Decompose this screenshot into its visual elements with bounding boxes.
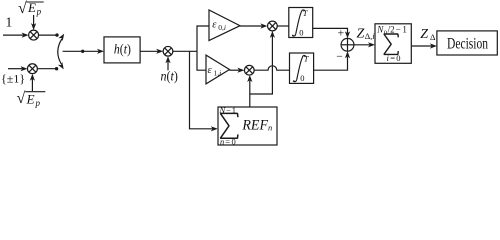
wire input 1 into M1 [3,34,24,36]
svg-text:n(t): n(t) [161,70,179,85]
svg-text:√: √ [17,90,26,107]
vinculum top [26,1,43,3]
wire A0 to multiplier M4 [240,25,262,27]
block H1 h(t) [104,37,140,63]
wire M1 to switch contact top [39,34,57,36]
label integral 0 to T top [292,10,305,37]
multiplier M1 [29,30,39,40]
decision block D1 [437,31,497,55]
label integral 0 to T bottom [293,55,306,82]
wire REF branch right and up into M4 [250,36,273,94]
multiplier M3 [163,46,173,56]
multiplier M2 [27,64,37,74]
svg-text:p: p [35,98,41,108]
wire sqrt(Ep) down into M1 [33,15,35,25]
wire INT2 to summer S1 minus input [314,57,348,70]
sigma glyph REF1 [220,113,238,138]
svg-text:{±1}: {±1} [1,71,25,85]
integrator INT1 [289,8,313,38]
wire M3 to branch corner [173,50,197,52]
wire REF output up into M5 [249,80,251,107]
label Z_Delta [420,27,436,42]
node switch contact bottom [55,67,58,70]
label sum limits N-1 n=0 [219,105,237,147]
svg-text:1,i: 1,i [214,69,222,78]
node switch contact top [55,33,58,36]
svg-text:Δ: Δ [430,32,436,42]
label epsilon_1i [208,65,222,78]
svg-text:n: n [268,123,272,133]
wire branch up to amplifier A0 [197,26,209,51]
multiplier M5 [244,65,254,75]
sigma glyph SUM1 [384,34,398,54]
switch SW1 arrowhead bottom [58,62,64,69]
summation block SUM1 [375,24,411,64]
svg-text:√: √ [18,0,27,17]
wire H1 to multiplier M3 [140,50,158,52]
wire INT1 to summer S1 plus input [313,28,348,33]
svg-text:h(t): h(t) [114,43,131,58]
node wiper junction [81,50,84,53]
switch SW1 arc [58,39,62,64]
svg-text:0: 0 [299,27,303,37]
wire input {+/-1} into M2 [8,68,22,70]
amplifier A1 epsilon_1i [206,55,230,84]
wire branch down to REF block [190,51,213,129]
wire sqrt(Ep) up into M2 [31,79,33,91]
wire M4 to integrator INT1 [277,25,289,27]
svg-text:E: E [26,92,35,107]
svg-text:p: p [36,7,42,17]
reference block REF1 [218,107,277,145]
vinculum bottom [25,91,45,93]
switch SW1 arrowhead top [58,34,64,41]
svg-text:0: 0 [300,73,304,83]
wire A1 to multiplier M5 [230,69,240,71]
svg-text:+: + [338,28,345,40]
integrator INT2 [290,53,314,83]
wire M2 to switch contact bottom [37,68,56,70]
label sqrt(Ep) top [18,0,42,17]
wire SUM1 to decision block [411,45,431,47]
label epsilon_0i [212,19,226,32]
label sqrt(Ep) bottom [17,90,41,108]
svg-text:Δ,i: Δ,i [365,31,376,41]
svg-text:Decision: Decision [447,35,488,52]
svg-text:1: 1 [6,15,13,30]
wire M5 to integrator INT2 with hop over REF line [254,66,289,70]
svg-text:T: T [304,53,310,63]
svg-text:Z: Z [357,26,365,41]
svg-text:Z: Z [420,27,428,42]
svg-text:0,i: 0,i [218,23,226,32]
wire n(t) up into M3 [167,61,169,70]
svg-text:−: − [336,51,343,63]
amplifier A0 epsilon_0i [209,10,240,41]
wire switch wiper to block H1 [63,50,99,52]
wire branch down to amplifier A1 [197,51,206,70]
label REF_n [241,117,272,133]
label Z_Delta_i [357,26,376,41]
label sum limits N0/2-1 i=0 [376,25,407,64]
svg-text:REF: REF [241,117,268,133]
wire S1 to summation block SUM1 [354,44,370,46]
multiplier M4 [268,21,278,31]
summer S1 [341,38,354,51]
svg-text:T: T [303,8,309,18]
